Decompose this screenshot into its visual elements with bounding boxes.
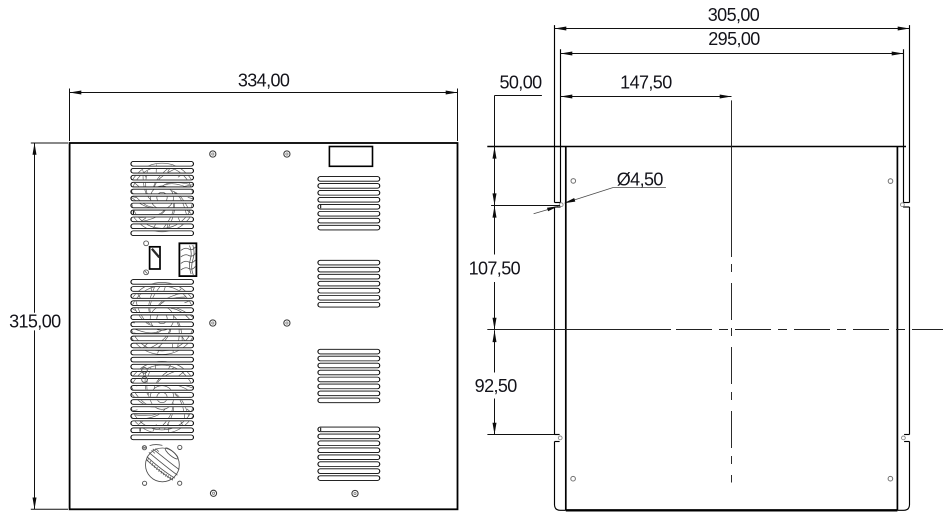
svg-text:315,00: 315,00 [9, 312, 61, 332]
svg-text:305,00: 305,00 [708, 5, 760, 25]
svg-text:Ø4,50: Ø4,50 [617, 170, 664, 190]
svg-text:147,50: 147,50 [620, 72, 672, 92]
svg-text:107,50: 107,50 [469, 259, 521, 279]
svg-text:295,00: 295,00 [708, 29, 760, 49]
svg-text:92,50: 92,50 [475, 376, 518, 396]
svg-text:334,00: 334,00 [238, 71, 290, 91]
svg-text:50,00: 50,00 [499, 72, 542, 92]
